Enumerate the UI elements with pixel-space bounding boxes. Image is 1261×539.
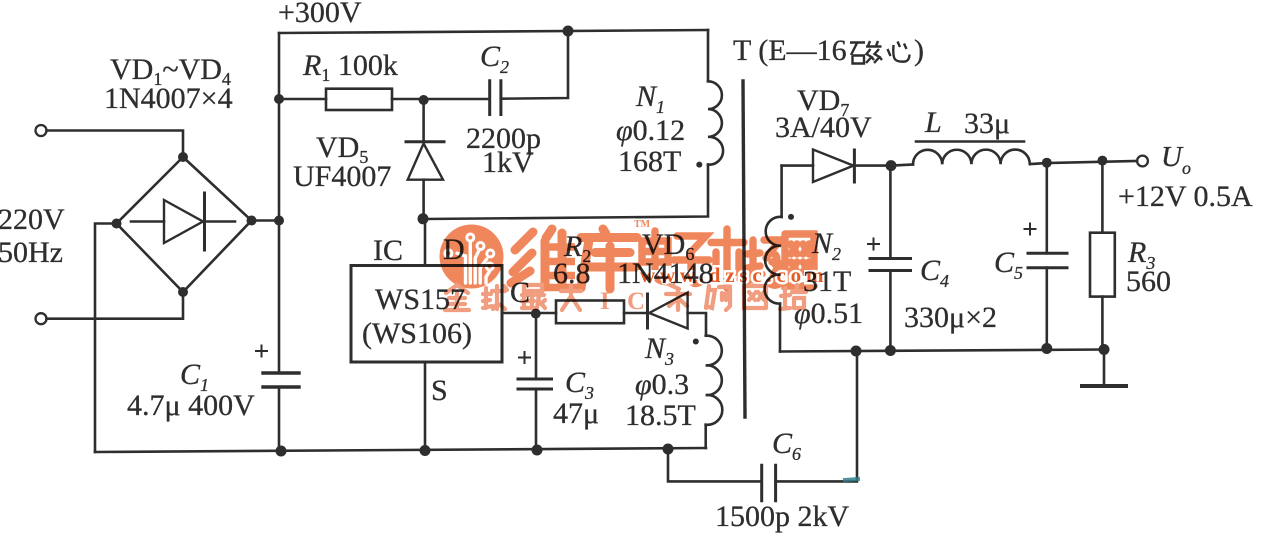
watermark char dian [642, 231, 671, 282]
wire left vertical rail (C1 branch) [278, 33, 281, 451]
svg-text:(WS106): (WS106) [362, 317, 472, 350]
terminal output [1137, 156, 1148, 167]
watermark char wang [785, 234, 814, 286]
junction C6 branch on bottom rail [663, 444, 674, 455]
plus sign C1 [256, 346, 267, 357]
svg-text:N1: N1 [635, 80, 665, 117]
svg-text:TM: TM [634, 219, 651, 230]
svg-text:I: I [600, 288, 610, 315]
diode VD5 [422, 100, 425, 142]
wire C2 right lead up to rail [501, 31, 568, 99]
resistor R2 box [556, 301, 624, 324]
watermark row2 quan [445, 285, 469, 310]
svg-text:168T: 168T [618, 145, 681, 178]
svg-text:C2: C2 [480, 40, 509, 77]
wire R1 left lead [279, 98, 326, 101]
hanzi 心 (core label) [888, 42, 910, 62]
svg-text:www.dzsc.com: www.dzsc.com [640, 263, 828, 287]
junction VD7 cathode / L / C4 [886, 160, 897, 171]
hanzi 磁 (core label) [850, 41, 882, 64]
svg-text:φ0.12: φ0.12 [616, 114, 685, 147]
svg-text:C5: C5 [994, 246, 1023, 283]
svg-text:18.5T: 18.5T [625, 399, 696, 432]
svg-text:IC: IC [373, 234, 403, 267]
teal scan artifact at C6 corner [845, 479, 858, 480]
wire bottom rail [95, 448, 706, 452]
wire N3 bottom [704, 425, 707, 448]
svg-text:1500p 2kV: 1500p 2kV [715, 500, 850, 533]
capacitor C2 plates [490, 81, 501, 115]
watermark row2 gou [706, 286, 730, 310]
svg-text:330μ×2: 330μ×2 [904, 301, 997, 334]
junction R1 left on +300V rail [274, 94, 284, 104]
wire rail to N1 top [707, 30, 710, 81]
IC WS157 box [351, 266, 502, 363]
wire R2 right lead [624, 312, 648, 315]
wire output to terminal [1047, 161, 1137, 163]
wire N2 bottom lead [779, 304, 782, 352]
svg-text:L: L [924, 106, 942, 139]
node C: IC pin C / R2 / C3 [531, 309, 541, 319]
inductor L [891, 165, 913, 166]
watermark char shi [711, 229, 744, 288]
node D: VD5 anode / N1 / IC pin D [418, 213, 429, 224]
capacitor C3 [535, 314, 538, 379]
wire N1 bottom to D node [425, 165, 708, 219]
phase dot N3 [693, 339, 699, 345]
svg-text:220V: 220V [0, 203, 65, 236]
terminal input top [36, 125, 47, 136]
svg-text:+12V 0.5A: +12V 0.5A [1118, 180, 1253, 213]
watermark row2 cai [666, 285, 690, 310]
junction S pin on bottom rail [420, 445, 431, 456]
watermark row2 zhan [780, 285, 806, 309]
capacitor C6 plates [762, 465, 776, 500]
wire bridge right corner to rail [252, 219, 280, 222]
watermark row2 qiu [483, 286, 507, 309]
svg-text:33μ: 33μ [964, 107, 1010, 140]
watermark logo circle [440, 225, 504, 289]
winding N3 [706, 336, 723, 425]
capacitor C5 [1046, 163, 1049, 253]
resistor R3 [1101, 161, 1104, 233]
plus sign C4 [868, 239, 879, 250]
watermark [440, 219, 829, 315]
winding N1 [708, 81, 723, 164]
watermark char zi [674, 236, 709, 284]
svg-text:47μ: 47μ [553, 397, 599, 430]
phase dot N2 [788, 214, 794, 220]
ground [1103, 350, 1106, 386]
wire C2 left lead [424, 98, 490, 101]
watermark row2 da [561, 285, 581, 310]
terminal input bottom [36, 313, 47, 324]
svg-text:Uo: Uo [1161, 141, 1191, 178]
svg-text:N3: N3 [644, 332, 674, 369]
plus sign C5 [1025, 224, 1036, 235]
bridge rectifier VD1-VD4 diamond [117, 157, 252, 292]
svg-text:+300V: +300V [278, 0, 362, 29]
junction L / C5 [1042, 158, 1052, 168]
svg-text:3A/40V: 3A/40V [775, 111, 872, 144]
resistor R1 box [326, 89, 392, 110]
wire top +300V rail [279, 30, 708, 33]
junction VD5 cathode / R1 / C2 [419, 95, 429, 105]
watermark char chang [746, 240, 782, 285]
svg-text:UF4007: UF4007 [293, 160, 391, 193]
watermark char wei [511, 229, 562, 287]
wire R1 right lead [392, 98, 424, 101]
wire C6 branch [668, 449, 762, 481]
capacitor C4 [889, 166, 892, 259]
junction bridge left corner [112, 219, 122, 229]
svg-text:): ) [914, 34, 924, 67]
svg-text:50Hz: 50Hz [0, 236, 63, 269]
capacitor C1 plates [263, 373, 299, 387]
wire input bottom to bridge [47, 292, 184, 319]
wire D pin [424, 219, 427, 266]
junction bridge output on rail [274, 216, 284, 226]
svg-text:R1 100k: R1 100k [302, 49, 398, 85]
junction C6 riser on output ground rail [851, 346, 862, 357]
svg-text:1kV: 1kV [482, 146, 534, 179]
junction C5 on output ground rail [1041, 343, 1052, 354]
wire N2 top lead [780, 166, 783, 217]
svg-text:4.7μ 400V: 4.7μ 400V [127, 389, 255, 422]
junction bridge right corner [247, 216, 257, 226]
junction R3 / ground [1099, 344, 1110, 355]
wire output ground rail [780, 350, 1104, 352]
junction bridge top corner [178, 152, 188, 162]
phase dot N1 [696, 162, 702, 168]
diode VD6 [646, 294, 649, 328]
svg-text:1N4007×4: 1N4007×4 [104, 82, 233, 115]
junction C4 on output ground rail [885, 345, 896, 356]
junction C2 riser on top rail [563, 26, 574, 37]
transformer core [743, 81, 745, 417]
diode symbol inside bridge [131, 220, 235, 223]
wire C pin [502, 312, 556, 315]
winding N2 [765, 217, 782, 304]
junction bridge bottom corner [178, 287, 188, 297]
svg-text:T (E—16: T (E—16 [733, 34, 847, 67]
svg-text:C: C [627, 288, 645, 315]
watermark row2 wang2 [744, 286, 766, 308]
svg-text:C6: C6 [772, 427, 801, 464]
junction R3 top / output [1097, 156, 1107, 166]
diode VD7 [782, 164, 813, 167]
label underline for L [916, 140, 1024, 143]
svg-text:C4: C4 [920, 254, 949, 291]
watermark row2 zui [522, 285, 545, 308]
watermark char ku [581, 229, 637, 289]
svg-text:560: 560 [1126, 265, 1171, 298]
wire bridge left corner stub [95, 224, 117, 453]
wire input top to bridge [47, 131, 184, 158]
svg-text:φ0.3: φ0.3 [635, 368, 689, 401]
junction C3 on bottom rail [532, 445, 543, 456]
wire S pin [424, 362, 427, 451]
svg-text:S: S [431, 374, 448, 407]
plus sign C3 [519, 352, 530, 363]
junction C1 on bottom rail [276, 446, 287, 457]
wire C6 right to ground rail [776, 351, 857, 481]
